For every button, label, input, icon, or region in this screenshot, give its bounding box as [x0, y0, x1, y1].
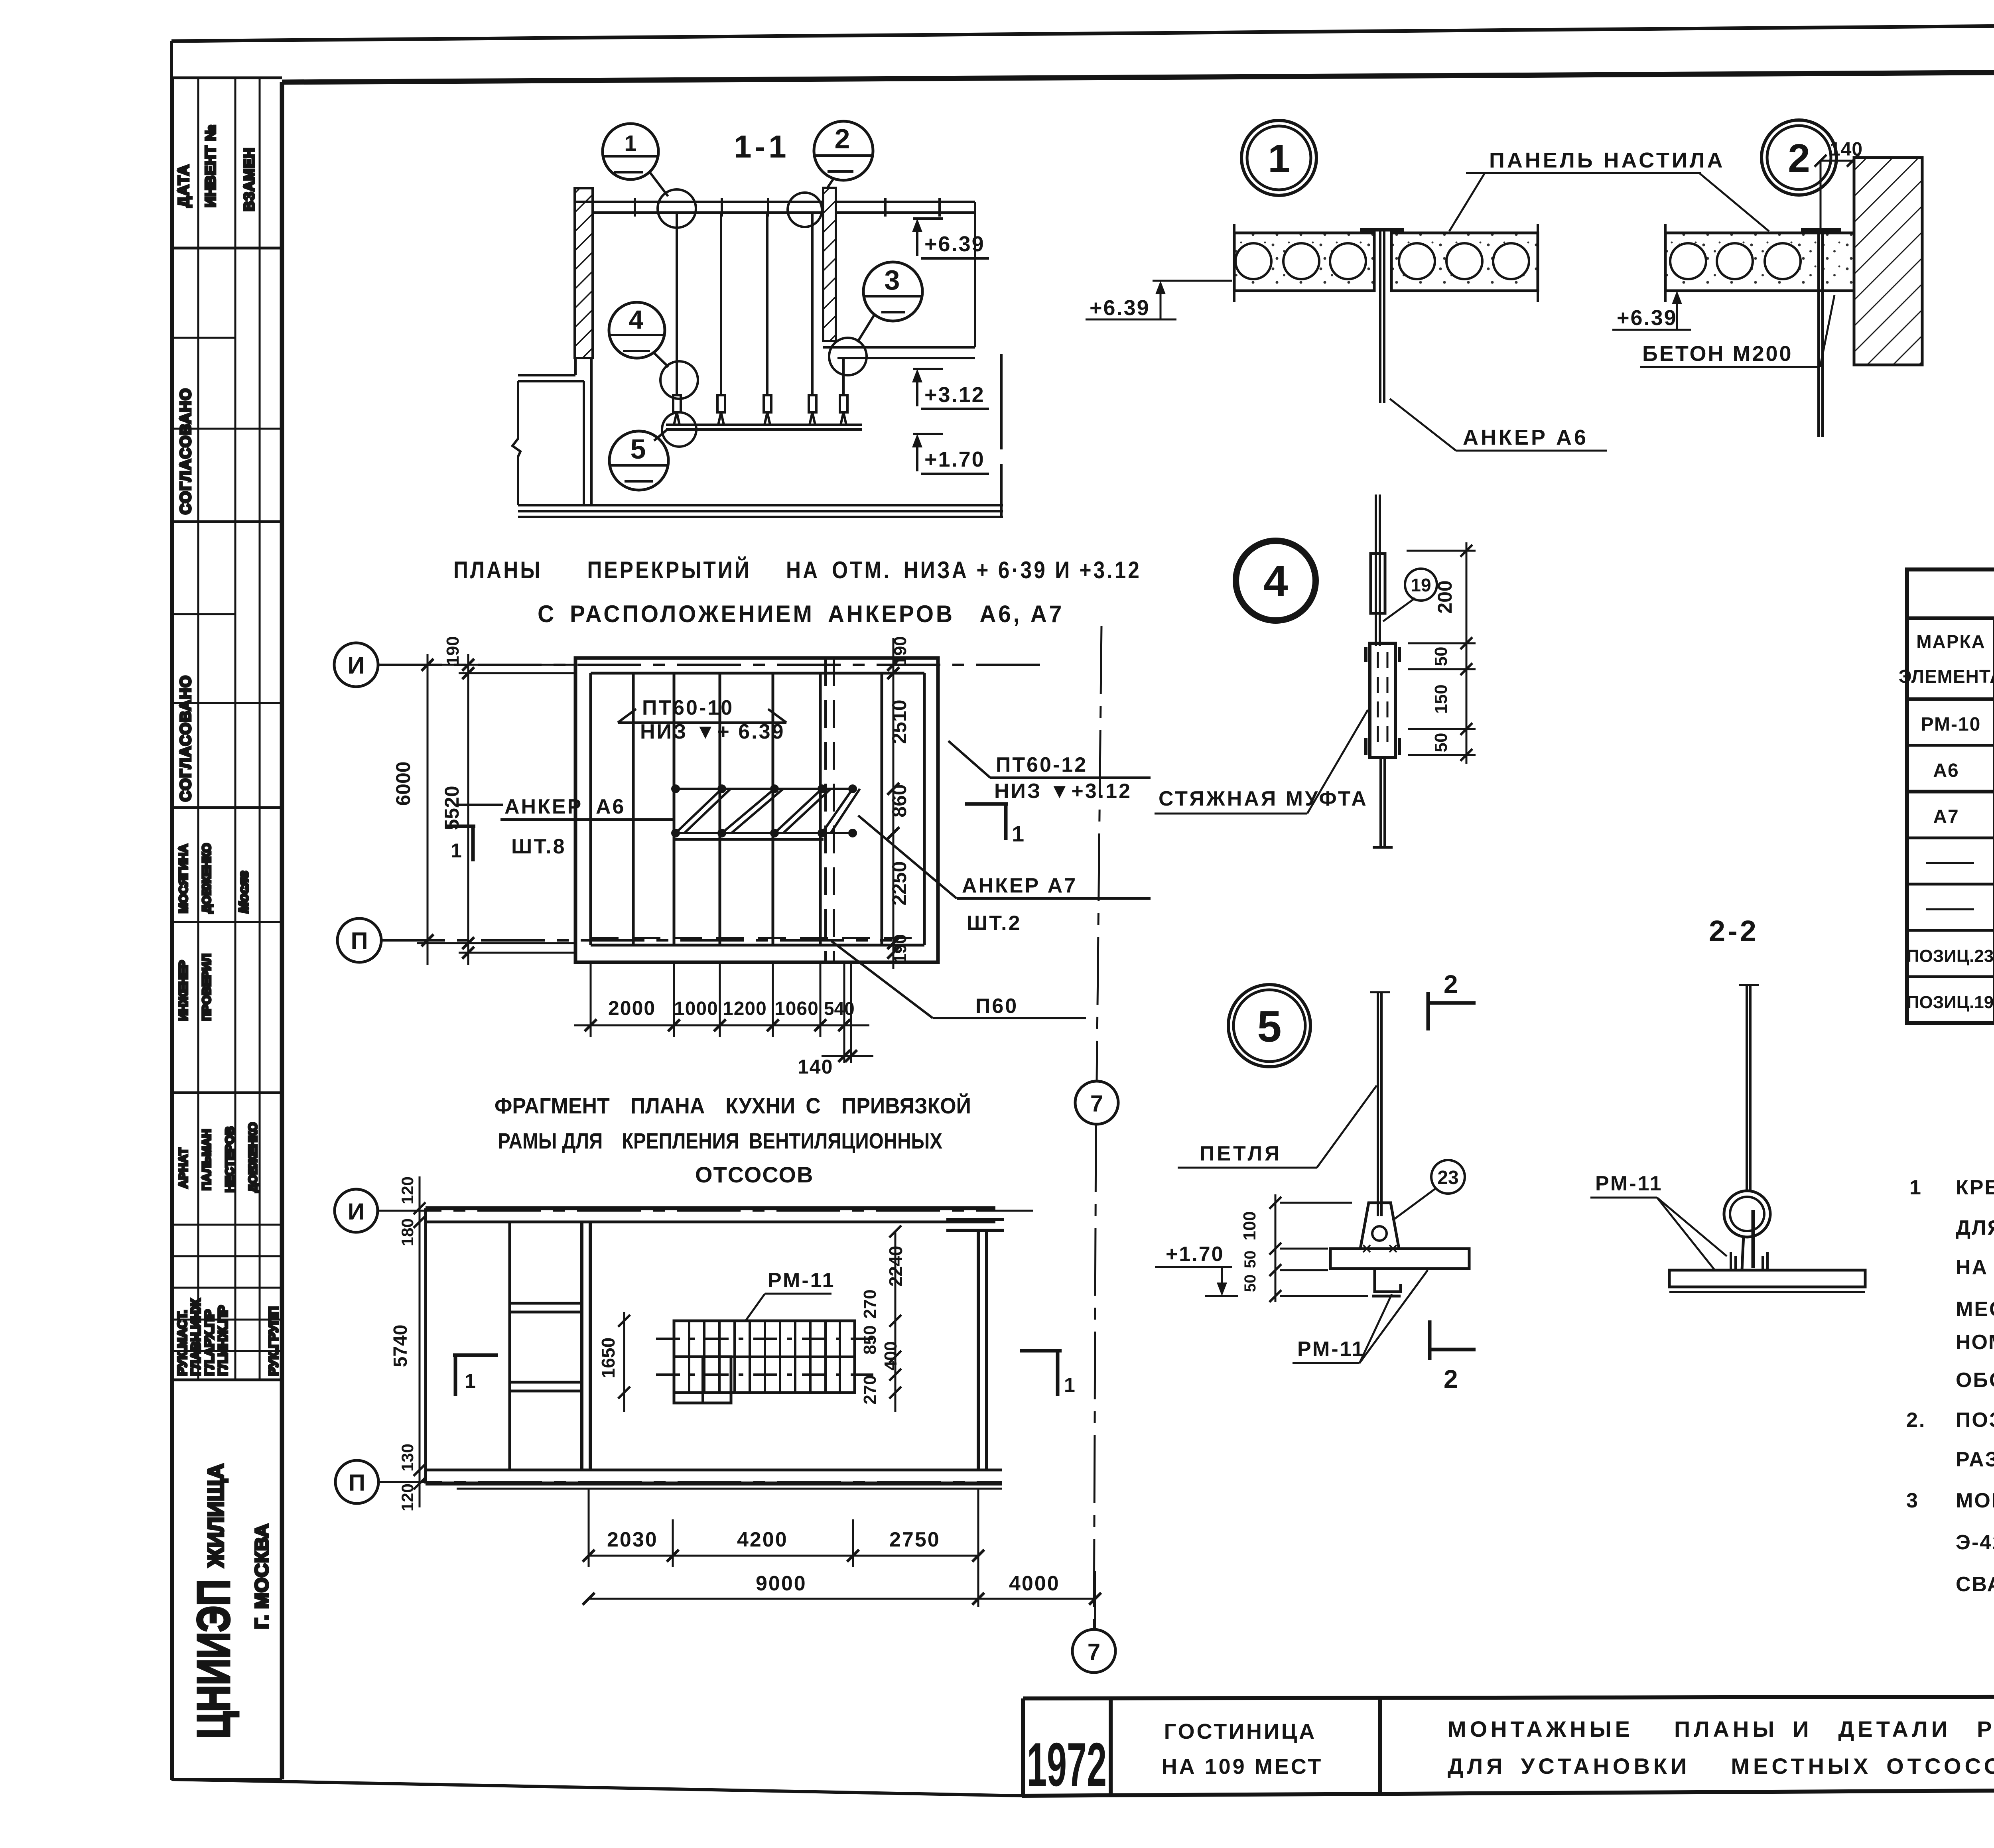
strip top edge: [173, 77, 282, 79]
callout circle on rail joint: [662, 412, 696, 447]
hanger rod 2: [720, 213, 722, 395]
svg-text:5740: 5740: [390, 1325, 411, 1367]
svg-text:50: 50: [1241, 1275, 1259, 1292]
header bottom: [1907, 697, 1994, 701]
svg-text:НЕСТЕРОВ: НЕСТЕРОВ: [223, 1126, 236, 1192]
svg-text:ФРАГМЕНТ ПЛАНА КУХНИ С ПРИВ: ФРАГМЕНТ ПЛАНА КУХНИ С ПРИВЯЗКОЙ: [495, 1093, 971, 1118]
axis 7 line upper: [1097, 626, 1101, 1081]
plan inner wall lines: [591, 672, 924, 675]
left dimension chains: [417, 654, 575, 965]
bent plate tabs on plate: [1731, 1252, 1767, 1270]
svg-text:5520: 5520: [441, 786, 463, 830]
table outline: [1907, 569, 1994, 1023]
svg-text:140: 140: [798, 1056, 833, 1078]
right dimension chain: [887, 638, 899, 969]
svg-text:РМ-10: РМ-10: [1921, 714, 1981, 735]
inner frame left: [280, 82, 284, 1779]
weld marks: [1363, 1245, 1397, 1252]
svg-text:КРЕПЛЕНИЕ МЕСТНЫХ ВЕНТИЛЯЦИО: КРЕПЛЕНИЕ МЕСТНЫХ ВЕНТИЛЯЦИОННЫХ ОТСОСОВ: [1956, 1176, 1994, 1199]
svg-text:НА ОСНОВЕ „ РЕКОМЕНДАЦИЙ ПО: НА ОСНОВЕ „ РЕКОМЕНДАЦИЙ ПО ПРИВЯЗКЕ: [1956, 1255, 1994, 1279]
bottom dimension chain: [574, 962, 873, 1063]
svg-text:1: 1: [1012, 821, 1024, 846]
row 1 РМ-10: [1921, 713, 1994, 735]
left lower ledge: [518, 374, 575, 376]
right wall edge upper room: [974, 202, 976, 347]
detail circle 5: [1228, 985, 1310, 1067]
svg-text:190: 190: [891, 636, 910, 665]
svg-text:ПОЗИЦИЮ 19 СМ. НА ЛИСТЕ 16 ЧАС: ПОЗИЦИЮ 19 СМ. НА ЛИСТЕ 16 ЧАСТЬ 10: [1956, 1409, 1994, 1432]
detail bubble 1 (empty): [603, 124, 658, 179]
svg-text:2.: 2.: [1906, 1409, 1926, 1432]
panel joint lines: [632, 673, 635, 945]
svg-text:ЖИЛИЩА: ЖИЛИЩА: [203, 1464, 228, 1568]
anchor rod A6 at detail 2: [1817, 229, 1820, 437]
top wall: [426, 1206, 995, 1210]
svg-text:50: 50: [1431, 733, 1451, 753]
hidden line near bottom: [591, 937, 924, 939]
svg-text:50: 50: [1431, 647, 1451, 666]
svg-text:2: 2: [1444, 1365, 1458, 1393]
girder П60 hidden lines: [824, 658, 827, 962]
svg-text:1: 1: [624, 130, 636, 156]
pin inside loop: [1752, 1210, 1755, 1268]
svg-text:СВАРКУ КРУГЛЫХ СТЕРЖНЕЙ ВЕСТИ: СВАРКУ КРУГЛЫХ СТЕРЖНЕЙ ВЕСТИ С 2Х СТОРО…: [1956, 1571, 1994, 1596]
svg-text:ПРОВЕРИЛ: ПРОВЕРИЛ: [200, 954, 213, 1021]
svg-text:ПЛАНЫ ПЕРЕКРЫТИЙ НА ОТМ. НИЗ: ПЛАНЫ ПЕРЕКРЫТИЙ НА ОТМ. НИЗА + 6·39 И +…: [453, 557, 1141, 583]
svg-text:19: 19: [1411, 575, 1431, 595]
row 2 А6: [1933, 759, 1994, 781]
svg-text:1650: 1650: [598, 1338, 619, 1378]
svg-text:2750: 2750: [889, 1528, 940, 1551]
svg-text:ОТСОСОВ: ОТСОСОВ: [695, 1162, 814, 1187]
svg-text:850: 850: [860, 1325, 880, 1354]
svg-text:1: 1: [1909, 1176, 1922, 1199]
svg-text:АНКЕР: АНКЕР: [504, 795, 583, 818]
axis circle И: [334, 643, 378, 687]
svg-text:П60: П60: [975, 995, 1018, 1018]
loop of view 2-2: [1724, 1191, 1770, 1237]
svg-text:100: 100: [1240, 1211, 1259, 1240]
svg-text:ПТ60-12: ПТ60-12: [996, 753, 1088, 776]
svg-text:ИНВЕНТ №: ИНВЕНТ №: [202, 124, 219, 207]
svg-text:120: 120: [398, 1484, 417, 1511]
svg-text:АРНАТ: АРНАТ: [177, 1148, 190, 1188]
svg-text:НА 109 МЕСТ: НА 109 МЕСТ: [1162, 1755, 1323, 1779]
floor slab at +3.12: [823, 346, 975, 349]
svg-text:И: И: [347, 652, 365, 679]
svg-text:4200: 4200: [737, 1528, 788, 1551]
svg-text:+1.70: +1.70: [1166, 1243, 1224, 1266]
svg-text:+6.39: +6.39: [1090, 296, 1150, 320]
svg-text:ПАНЕЛЬ НАСТИЛА: ПАНЕЛЬ НАСТИЛА: [1489, 148, 1725, 172]
svg-text:540: 540: [824, 998, 855, 1019]
svg-text:ДОВЖЕНКО: ДОВЖЕНКО: [200, 843, 213, 913]
anchor rod A6 at detail 1: [1379, 228, 1381, 403]
axis circle 7 bottom: [1072, 1629, 1115, 1673]
NOTES: [1906, 1176, 1994, 1596]
svg-text:4: 4: [629, 305, 644, 334]
detail bubble 3: [863, 262, 922, 321]
svg-text:5: 5: [1257, 1002, 1281, 1051]
axis circle 7 top: [1075, 1081, 1118, 1124]
svg-text:1200: 1200: [723, 998, 767, 1019]
DETAIL 1 AND 2: [1086, 120, 1922, 451]
svg-text:2: 2: [835, 123, 850, 154]
svg-text:ГЛ.АРХ.ПР: ГЛ.АРХ.ПР: [202, 1310, 217, 1376]
horizontal plate of view 2-2: [1669, 1270, 1865, 1287]
axis circle П kitchen: [335, 1460, 378, 1503]
title block bottom edge: [1022, 1787, 1994, 1796]
svg-text:МОСЯГИНА: МОСЯГИНА: [177, 844, 190, 913]
svg-text:Мосяг: Мосяг: [236, 871, 251, 913]
hanger feet: [674, 412, 846, 425]
svg-text:НИЗ ▼+3.12: НИЗ ▼+3.12: [994, 780, 1132, 803]
svg-text:СОГЛАСОВАНО: СОГЛАСОВАНО: [177, 388, 194, 514]
svg-text:5: 5: [631, 433, 646, 465]
axis circle П: [337, 918, 381, 962]
svg-text:120: 120: [398, 1176, 417, 1204]
position bubble 19: [1405, 569, 1437, 601]
axis line И: [378, 664, 1042, 666]
axis 7 line lower: [1094, 1124, 1096, 1629]
lower rod: [1379, 758, 1382, 847]
top bar over joint 2: [1801, 228, 1841, 232]
KITCHEN PLAN: [335, 626, 1118, 1673]
detail circle 4: [1236, 541, 1316, 621]
svg-text:ДАТА: ДАТА: [175, 164, 192, 207]
svg-text:270: 270: [860, 1289, 880, 1318]
axis line П: [381, 939, 892, 942]
svg-text:С РАСПОЛОЖЕНИЕМ АНКЕРОВ А6, А7: С РАСПОЛОЖЕНИЕМ АНКЕРОВ А6, А7: [538, 601, 1064, 627]
svg-text:400: 400: [881, 1341, 900, 1370]
dim chain of detail 4: [1407, 542, 1476, 764]
svg-text:ШТ.8: ШТ.8: [511, 835, 566, 858]
hanger rod of view 2-2: [1746, 985, 1748, 1190]
svg-text:ГОСТИНИЦА: ГОСТИНИЦА: [1164, 1720, 1317, 1744]
frame axes dash-dot: [656, 1338, 873, 1340]
svg-text:+6.39: +6.39: [1617, 306, 1677, 330]
TABLE: [1899, 569, 1994, 1023]
interior partition 1: [508, 1222, 511, 1470]
svg-text:2: 2: [1788, 136, 1810, 181]
dims right of grid: [895, 1231, 897, 1412]
anchor rows: [674, 788, 855, 790]
svg-text:ОБОРУДОВАНИЮ„ ГИПРОТОРГ„ ПРО: ОБОРУДОВАНИЮ„ ГИПРОТОРГ„ ПРОЕКТ № 69-420: [1956, 1369, 1994, 1392]
svg-text:И: И: [348, 1199, 365, 1225]
callout circle on ceiling joint left: [658, 189, 696, 228]
svg-text:2030: 2030: [607, 1528, 658, 1551]
svg-text:2510: 2510: [888, 699, 910, 744]
svg-text:ДЛЯ УСТАНОВКИ МЕСТНЫХ ОТСОСОВ: ДЛЯ УСТАНОВКИ МЕСТНЫХ ОТСОСОВ: [1448, 1753, 1994, 1779]
svg-text:200: 200: [1434, 580, 1456, 613]
svg-text:ПТ60-10: ПТ60-10: [642, 696, 734, 719]
SECTION 1-1: [453, 121, 1141, 627]
upper flat bar pos.19: [1371, 554, 1385, 613]
detail circle 1: [1241, 120, 1316, 195]
svg-text:6000: 6000: [392, 761, 414, 806]
svg-text:Э-42 . ВЫСОТА hш = 6 ММ.: Э-42 . ВЫСОТА hш = 6 ММ.: [1956, 1531, 1994, 1554]
svg-text:1: 1: [465, 1370, 476, 1392]
svg-text:1: 1: [451, 839, 462, 862]
svg-text:Г. МОСКВА: Г. МОСКВА: [251, 1523, 272, 1629]
svg-text:23: 23: [1437, 1167, 1458, 1188]
anchor diagonal symbols: [676, 789, 722, 833]
right wall edge lower room: [1000, 354, 1003, 449]
column lines: [1993, 618, 1994, 1023]
svg-text:ШТ.2: ШТ.2: [967, 912, 1022, 935]
svg-text:РУК.ГРУПП: РУК.ГРУПП: [266, 1306, 281, 1376]
turnbuckle body: [1370, 643, 1395, 758]
svg-text:190: 190: [891, 934, 910, 963]
svg-text:АНКЕР А7: АНКЕР А7: [962, 874, 1077, 897]
LEFT STAMP STRIP: [173, 78, 282, 1779]
detail bubble 5: [609, 431, 668, 490]
dim chain of detail 5: [1269, 1194, 1368, 1302]
slab of detail 2: [1665, 233, 1854, 291]
outer border top: [171, 20, 1994, 41]
axis circle И kitchen: [335, 1189, 378, 1232]
svg-text:2240: 2240: [885, 1246, 906, 1287]
svg-text:ПАЛЬМАН: ПАЛЬМАН: [200, 1129, 213, 1190]
hanger rod 4: [811, 213, 814, 395]
svg-text:РМ-11: РМ-11: [1297, 1338, 1365, 1361]
ceiling slab: [575, 201, 975, 203]
svg-text:ЦНИИЭП: ЦНИИЭП: [188, 1579, 239, 1739]
ceiling panel joint ticks: [634, 198, 636, 217]
svg-text:1000: 1000: [674, 998, 718, 1019]
bracket trapezoid: [1360, 1203, 1399, 1249]
svg-text:+6.39: +6.39: [924, 232, 985, 256]
hanger rod 1: [676, 213, 678, 395]
svg-text:860: 860: [888, 784, 910, 817]
turnbuckles on rods: [673, 395, 681, 412]
DETAIL 4: [1155, 495, 1476, 847]
svg-text:3: 3: [1906, 1489, 1919, 1512]
svg-text:ВЗАМЕН: ВЗАМЕН: [241, 148, 257, 211]
hanger rod of detail 5: [1377, 992, 1379, 1216]
svg-text:ДЛЯ ТЕХНОЛОГИЧЕСКОГО ОБОРУДОВ: ДЛЯ ТЕХНОЛОГИЧЕСКОГО ОБОРУДОВАНИЯ РАЗРАБ…: [1956, 1216, 1994, 1239]
left wall lower thin: [583, 381, 585, 505]
svg-text:РМ-11: РМ-11: [1595, 1172, 1663, 1195]
svg-text:1060: 1060: [774, 998, 819, 1019]
svg-text:1: 1: [1268, 136, 1290, 181]
PLAN VIEW: [334, 636, 1151, 1078]
row 6 позиц 23: [1907, 944, 1994, 966]
svg-text:180: 180: [398, 1218, 417, 1246]
svg-text:АНКЕР А6: АНКЕР А6: [1463, 426, 1588, 449]
cell borders: [1021, 1698, 1025, 1796]
svg-text:7: 7: [1090, 1091, 1103, 1117]
svg-text:РАМЫ ДЛЯ КРЕПЛЕНИЯ ВЕНТИЛЯЦИО: РАМЫ ДЛЯ КРЕПЛЕНИЯ ВЕНТИЛЯЦИОННЫХ: [498, 1128, 942, 1153]
svg-text:ИНЖЕНЕР: ИНЖЕНЕР: [177, 960, 190, 1021]
svg-text:+1.70: +1.70: [924, 447, 985, 471]
svg-text:1972: 1972: [1027, 1730, 1107, 1799]
svg-text:СОГЛАСОВАНО: СОГЛАСОВАНО: [177, 675, 194, 802]
elevation +3.12: [912, 369, 989, 409]
svg-text:РАЗДЕЛ 10.7-1: РАЗДЕЛ 10.7-1: [1956, 1448, 1994, 1471]
loop circle: [1372, 1226, 1387, 1241]
svg-text:А6: А6: [1933, 760, 1959, 781]
svg-text:2-2: 2-2: [1709, 914, 1759, 948]
svg-text:ПОЗИЦ.23: ПОЗИЦ.23: [1907, 946, 1994, 966]
svg-text:1-1: 1-1: [734, 129, 790, 164]
svg-text:3: 3: [885, 264, 900, 296]
svg-text:150: 150: [1431, 684, 1451, 713]
channel below: [1375, 1269, 1401, 1292]
hanger rod 3: [766, 213, 768, 395]
svg-text:ПЕТЛЯ: ПЕТЛЯ: [1200, 1142, 1282, 1165]
svg-text:4: 4: [1263, 557, 1288, 606]
left edge with break: [512, 381, 520, 505]
detail bubble 2: [814, 121, 873, 180]
slab right of detail 1 joint: [1391, 233, 1538, 291]
row 7 позиц 19: [1907, 990, 1994, 1013]
svg-text:+3.12: +3.12: [924, 383, 985, 407]
strip column lines: [171, 78, 174, 1779]
svg-text:130: 130: [398, 1444, 417, 1472]
svg-text:9000: 9000: [756, 1572, 807, 1595]
strip bottom edge: [173, 1778, 282, 1781]
elevation +6.39: [912, 219, 989, 258]
svg-text:270: 270: [860, 1375, 880, 1404]
svg-text:МОНТАЖНУЮ СВАРКУ ВЫПОЛНЯТЬ ЭЛ: МОНТАЖНУЮ СВАРКУ ВЫПОЛНЯТЬ ЭЛЕКТРОДАМИ: [1956, 1489, 1994, 1512]
frame annex block: [674, 1357, 731, 1403]
elevation +1.70: [912, 434, 989, 474]
section mark 2 bottom: [1428, 1320, 1432, 1360]
bottom dim chain kitchen: [583, 1489, 1101, 1629]
horizontal plate: [1330, 1249, 1469, 1269]
top bar over joint: [1360, 228, 1404, 232]
interior partition 2 (double): [580, 1222, 583, 1470]
wall right hatched of detail 2: [1854, 158, 1922, 365]
position bubble 23: [1431, 1160, 1465, 1194]
row 3 А7: [1933, 805, 1994, 827]
upper rod: [1375, 495, 1377, 646]
slab left of detail 1: [1234, 233, 1374, 291]
bottom wall: [426, 1469, 1002, 1472]
svg-text:П: П: [349, 1470, 365, 1496]
row lines: [1907, 744, 1994, 747]
outer border bottom left of title block: [171, 1779, 1022, 1796]
left wall: [424, 1208, 427, 1484]
section mark 2 top: [1427, 992, 1430, 1030]
svg-text:СТЯЖНАЯ МУФТА: СТЯЖНАЯ МУФТА: [1159, 787, 1368, 810]
svg-text:ДОВЖЕНКО: ДОВЖЕНКО: [246, 1122, 260, 1192]
callout circle on turnbuckle 1: [660, 361, 698, 399]
svg-text:50: 50: [1241, 1251, 1259, 1269]
svg-text:МОНТАЖНЫЕ ПЛАНЫ И ДЕТАЛИ РАМЫ: МОНТАЖНЫЕ ПЛАНЫ И ДЕТАЛИ РАМЫ: [1448, 1716, 1994, 1742]
bottom rail: [666, 424, 862, 426]
dim 1650 left of grid: [623, 1312, 625, 1412]
svg-text:ГЛАВН.ИНЖ: ГЛАВН.ИНЖ: [189, 1298, 203, 1376]
svg-text:БЕТОН М200: БЕТОН М200: [1642, 342, 1793, 366]
svg-text:2: 2: [1444, 970, 1458, 999]
svg-text:2000: 2000: [608, 997, 656, 1019]
left wall hatched: [575, 188, 593, 358]
section marker 1 left: [447, 825, 475, 828]
section marker 1 kitchen right: [1020, 1349, 1062, 1353]
left dim chain kitchen: [419, 1176, 421, 1507]
svg-text:4000: 4000: [1009, 1572, 1060, 1595]
frame РМ-11 grid: [674, 1321, 855, 1393]
svg-text:2250: 2250: [888, 861, 910, 905]
interior wall above +3.12 hatched: [823, 188, 836, 341]
svg-text:ГЛ.ИНЖ.ПР: ГЛ.ИНЖ.ПР: [216, 1305, 230, 1376]
bottom floor lines: [518, 504, 1003, 506]
svg-text:МЕСТНЫХ ВЕНТИЛЯЦИОННЫХ ОТСОСО: МЕСТНЫХ ВЕНТИЛЯЦИОННЫХ ОТСОСОВ К СЕКЦИОН…: [1956, 1298, 1994, 1321]
section marker 1 right: [965, 802, 1008, 806]
svg-text:П: П: [351, 928, 368, 954]
callout circle floor joint right: [829, 338, 867, 375]
svg-text:ПОЗИЦ.19: ПОЗИЦ.19: [1907, 993, 1994, 1012]
detail bubble 4: [609, 302, 665, 358]
svg-text:А7: А7: [1933, 806, 1959, 827]
detail circle 2: [1761, 120, 1836, 195]
title block top edge: [1023, 1696, 1994, 1698]
svg-text:РМ-11: РМ-11: [768, 1269, 835, 1292]
anchor dots: [671, 784, 857, 837]
svg-text:190: 190: [443, 636, 463, 665]
VIEW 2-2: [1590, 914, 1865, 1292]
callout circle on ceiling joint right: [788, 193, 822, 227]
TITLE BLOCK: [1022, 1696, 1994, 1799]
svg-text:ЭЛЕМЕНТА: ЭЛЕМЕНТА: [1899, 666, 1994, 687]
svg-text:7: 7: [1088, 1639, 1100, 1665]
inner frame top: [282, 69, 1994, 82]
interior cross walls: [510, 1302, 582, 1305]
outer border left: [170, 41, 173, 1780]
svg-text:А6: А6: [596, 795, 625, 818]
plan outer wall rect: [575, 658, 938, 962]
right wall I-shaped: [977, 1230, 980, 1470]
svg-text:МАРКА: МАРКА: [1916, 631, 1986, 652]
svg-text:РУК.МАСТ.: РУК.МАСТ.: [175, 1310, 189, 1376]
section marker 1 kitchen left: [453, 1353, 498, 1357]
svg-text:1: 1: [1064, 1374, 1075, 1396]
DETAIL 5: [1155, 970, 1476, 1393]
svg-text:НОМУ МОДУЛИРОВАННОМУ ТЕПЛОВОМ: НОМУ МОДУЛИРОВАННОМУ ТЕПЛОВОМУ ТЕХНОЛОГИ…: [1956, 1331, 1994, 1354]
strip row lines: [173, 247, 282, 250]
hanger rod 5: [842, 358, 845, 395]
